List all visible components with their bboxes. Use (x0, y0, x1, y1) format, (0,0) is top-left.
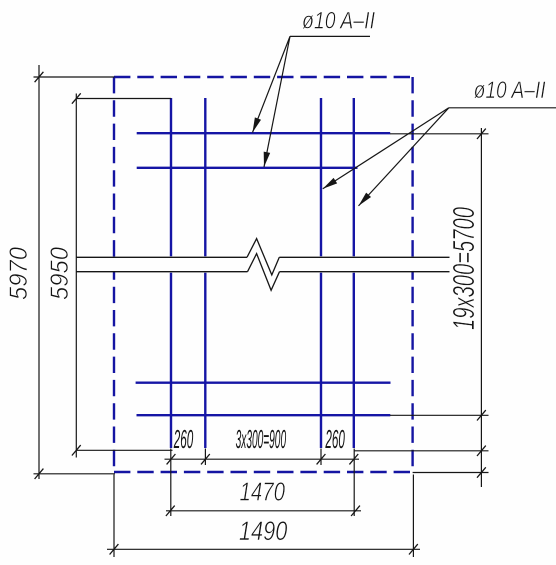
svg-text:ø10 A–II: ø10 A–II (474, 77, 546, 104)
svg-text:260: 260 (325, 424, 345, 454)
svg-text:ø10 A–II: ø10 A–II (302, 7, 375, 34)
svg-text:19x300=5700: 19x300=5700 (446, 207, 481, 330)
svg-text:3x300=900: 3x300=900 (236, 424, 287, 454)
svg-text:1490: 1490 (239, 516, 288, 546)
svg-text:5950: 5950 (46, 247, 74, 300)
svg-text:5970: 5970 (5, 247, 33, 300)
svg-text:260: 260 (173, 424, 193, 454)
svg-text:1470: 1470 (240, 477, 286, 507)
